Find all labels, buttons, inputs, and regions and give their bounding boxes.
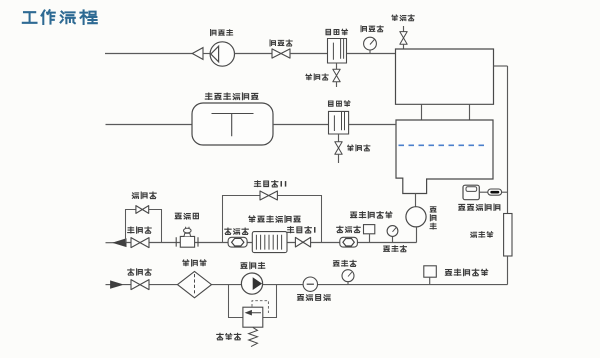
vacuum pump 真空泵 (210, 42, 234, 66)
label 功能阀I (287, 227, 314, 233)
supply pump 供油泵 (241, 273, 262, 294)
wire: heater to bottom line (507, 256, 509, 285)
wire: oil inlet line (106, 284, 112, 286)
pressure controller (bottom) 压力控制器 (424, 266, 437, 285)
flow switch 流量开关 (303, 277, 317, 291)
label 压力控制器-mid (351, 212, 392, 218)
valve 真空阀 (272, 49, 290, 58)
tank1 vacuum chamber (396, 49, 494, 104)
valve 出油阀 (131, 238, 149, 248)
valve 取样阀 (136, 206, 149, 214)
label 静电装置总成 (249, 216, 300, 223)
drain valve 放水阀 (under C2) (335, 134, 342, 163)
label 真空表 (361, 26, 383, 32)
wire: tank1 to right pipe stub (494, 65, 508, 67)
wire: oil outlet line (106, 242, 115, 244)
label 出油阀 (128, 227, 152, 233)
pressure gauge (bottom) 压力表 (342, 270, 354, 285)
exhaust nozzle triangle (192, 48, 203, 60)
label 放水阀2 (348, 145, 370, 151)
label 安全阀 (217, 333, 241, 339)
wire: tank connector left (421, 104, 423, 120)
label 电子温控仪 (459, 204, 500, 210)
wire (122, 284, 507, 286)
safety valve bypass wire (229, 285, 277, 318)
wire: booster to condenser2 (273, 124, 329, 126)
label 流量计 (175, 213, 198, 219)
label 放气阀 (392, 15, 414, 21)
wire (235, 53, 273, 55)
label 压力表-mid (384, 246, 407, 252)
wire: sump to discharge pump (415, 194, 417, 207)
wire: condenser2 to tank2 (349, 124, 396, 126)
check valve 单向阀 (right) (340, 237, 358, 247)
inflow arrow (111, 281, 123, 288)
label 加热器 (471, 232, 493, 238)
label 冷凝器1 (326, 29, 348, 35)
wire: controller to sensor (479, 191, 488, 193)
temp sensor pill (488, 189, 502, 195)
wire: right vertical pipe (507, 66, 509, 214)
wire: pump to middle line (416, 227, 418, 243)
label 压力控制器-bot (445, 269, 487, 276)
safety valve spring (249, 327, 258, 346)
label 压力表-bot (333, 260, 356, 266)
label 取样阀 (132, 192, 156, 198)
sampling branch wire (126, 210, 162, 243)
tank2 oil tank (396, 120, 493, 194)
safety valve pilot dashed line (252, 301, 268, 313)
vacuum gauge 真空表 (364, 37, 377, 53)
wire: vacuum exhaust line (105, 53, 193, 55)
valve 功能阀I (295, 237, 310, 247)
coarse filter 粗滤器 (178, 271, 212, 297)
label 排油泵 (430, 207, 436, 229)
wire: tank connector right (469, 104, 471, 120)
function branch wire (功能阀II loop) (223, 196, 322, 243)
label 增压装置总成 (205, 93, 258, 100)
label 真空泵 (211, 30, 233, 36)
safety valve 安全阀 (243, 307, 263, 327)
valve 功能阀II (260, 191, 277, 200)
air release valve 放气阀 (400, 26, 407, 50)
check valve 单向阀 (left) (228, 237, 247, 247)
wire: condenser1 to tank1 (347, 53, 396, 55)
label 粗滤器 (183, 260, 206, 266)
label 冷凝器2 (329, 101, 351, 107)
title 工作流程 (23, 10, 97, 24)
wire (126, 242, 417, 244)
temp controller 电子温控仪 (463, 185, 479, 200)
label 单向阀2 (337, 226, 361, 232)
label 放水阀1 (306, 74, 328, 80)
wire (203, 53, 210, 55)
heater 加热器 (504, 214, 512, 257)
drain valve 放水阀 (under C1) (333, 63, 340, 87)
wire: line2 left (106, 124, 193, 126)
valve 进油阀 (131, 280, 149, 290)
static eliminator 静电装置总成 (252, 232, 287, 253)
wire (290, 53, 328, 55)
label 单向阀1 (225, 228, 249, 234)
label 流量开关 (297, 295, 330, 301)
pressure controller (mid) 压力控制器 (364, 225, 375, 243)
booster assembly 增压装置总成 (192, 103, 273, 145)
oil level dashed line (399, 144, 489, 146)
label 进油阀 (128, 269, 152, 275)
flow meter 流量计 (176, 227, 198, 247)
pressure gauge (mid) 压力表 (387, 226, 398, 243)
condenser C1 冷凝器 (328, 39, 347, 64)
outflow arrow (114, 239, 126, 247)
label 真空阀 (270, 40, 292, 46)
discharge pump 排油泵 (406, 207, 426, 227)
condenser C2 冷凝器 (329, 111, 349, 134)
wire: sensor to pipe (502, 191, 508, 193)
label 供油泵 (241, 262, 265, 268)
label 功能阀II (254, 181, 285, 187)
